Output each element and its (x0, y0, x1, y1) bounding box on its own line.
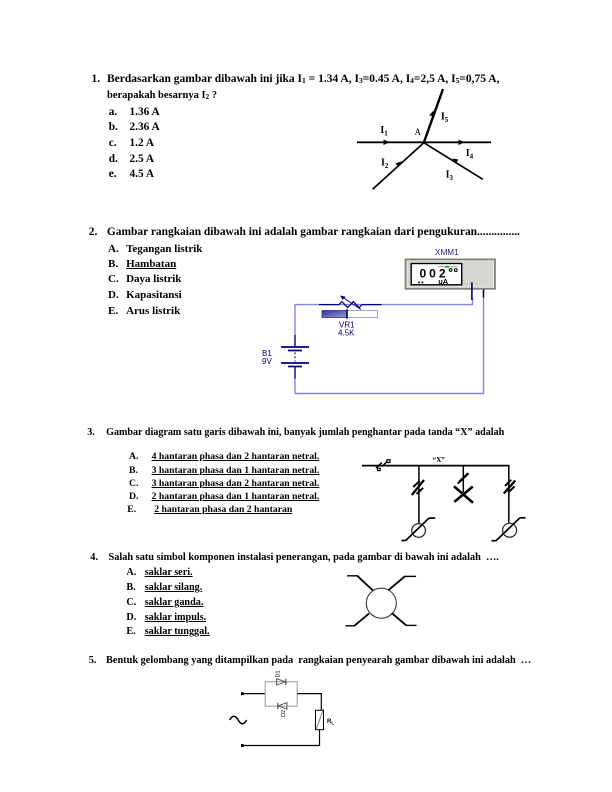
diode D2 (bottom, pointing left) (278, 703, 287, 709)
diode pair box (265, 682, 297, 707)
feeder conductor slashes with terminals (376, 463, 382, 468)
svg-text:uA: uA (438, 277, 449, 286)
wire: branch I2 lower-left (373, 143, 424, 190)
wire: drop 3 vertical (508, 466, 510, 523)
Q2 measurement circuit (Multisim style) (255, 245, 505, 400)
top-right pole (389, 576, 405, 590)
lamp holder symbol 2 (circle with switch line) (503, 523, 517, 537)
multimeter XMM1 display (411, 264, 462, 285)
svg-text:XMM1: XMM1 (435, 248, 459, 257)
drop 2 conductor slash group (459, 473, 468, 482)
wire: left vertical lower (294, 379, 296, 395)
svg-text:I2: I2 (381, 157, 389, 170)
svg-text:RL: RL (327, 719, 334, 726)
bottom-left pole (354, 614, 369, 626)
potentiometer VR1 slider bar empty part (347, 311, 378, 318)
Q5 rectifier circuit (225, 668, 340, 753)
arrow I1 (384, 140, 391, 145)
resistor RL body (316, 710, 324, 729)
wire: top left (242, 693, 265, 695)
multimeter XMM1 body (406, 259, 496, 288)
svg-text:D1: D1 (276, 670, 282, 677)
display degree marks (449, 269, 452, 272)
diode D1 (top, pointing right) (277, 679, 286, 685)
Q3 one-line wiring diagram (340, 450, 522, 545)
AC source sine symbol (230, 716, 247, 724)
svg-text:I3: I3 (446, 170, 454, 183)
Q1 current junction diagram (350, 85, 520, 195)
wire: top feeder line (362, 465, 510, 467)
lamp holder symbol 1 (circle with switch line) (412, 524, 426, 538)
display green bar (445, 266, 450, 268)
svg-text:I4: I4 (466, 148, 474, 161)
potentiometer VR1 wiper arrow (343, 298, 361, 310)
potentiometer VR1 leads (319, 302, 382, 308)
wire: drop 1 vertical (418, 466, 420, 524)
arrow I2 (395, 161, 401, 167)
battery B1 top lead (294, 335, 296, 347)
Q5 (89, 656, 97, 666)
arrow I3 (452, 159, 458, 164)
svg-text:A: A (415, 127, 422, 137)
Q4 (90, 553, 98, 563)
wire: left vertical upper (294, 304, 296, 335)
meter terminal + (471, 282, 473, 300)
arrow I4 (459, 140, 466, 145)
drop 1 conductor slash group (412, 480, 424, 495)
lamp symbol (X cross) (454, 486, 473, 503)
svg-text:4.5K: 4.5K (338, 329, 355, 338)
wire: resistor bottom down (319, 730, 321, 746)
wire: bottom horizontal (242, 745, 320, 747)
wire: right down to resistor (320, 693, 322, 710)
bottom-right pole (392, 613, 407, 625)
wire: top-right riser to meter terminal (472, 298, 474, 305)
wire: right vertical to meter minus terminal (483, 298, 485, 395)
svg-text:D2: D2 (281, 710, 287, 717)
arrow I5 (429, 111, 434, 117)
potentiometer VR1 slider divider (346, 309, 348, 318)
meter terminal - (483, 290, 485, 298)
potentiometer VR1 slider bar filled part (322, 311, 347, 318)
wire: bottom horizontal (295, 393, 484, 395)
display dots (418, 282, 420, 284)
top-left pole (357, 576, 373, 591)
wire: top right (297, 693, 321, 695)
drop 3 conductor slash group (504, 481, 516, 494)
Q3 (87, 428, 95, 438)
svg-text:9V: 9V (262, 357, 272, 366)
wire: drop 2 vertical (462, 466, 464, 492)
wire: top horizontal (295, 304, 473, 306)
switch body circle (366, 588, 396, 618)
node: input terminal bottom (241, 744, 244, 747)
svg-text:I1: I1 (380, 125, 388, 138)
wire: branch I5 up from node A (424, 89, 443, 143)
Q2 (89, 227, 98, 238)
battery B1 plates (281, 346, 309, 348)
Q1 (92, 74, 101, 86)
svg-text:I5: I5 (441, 112, 449, 125)
node: input terminal top (241, 692, 244, 695)
wire: branch I3 lower-right (424, 143, 483, 180)
wire: horizontal line through node A (357, 141, 491, 143)
battery B1 bottom lead (294, 367, 296, 379)
svg-text:“X”: “X” (433, 456, 446, 464)
Q4 cross-switch symbol (340, 570, 425, 632)
